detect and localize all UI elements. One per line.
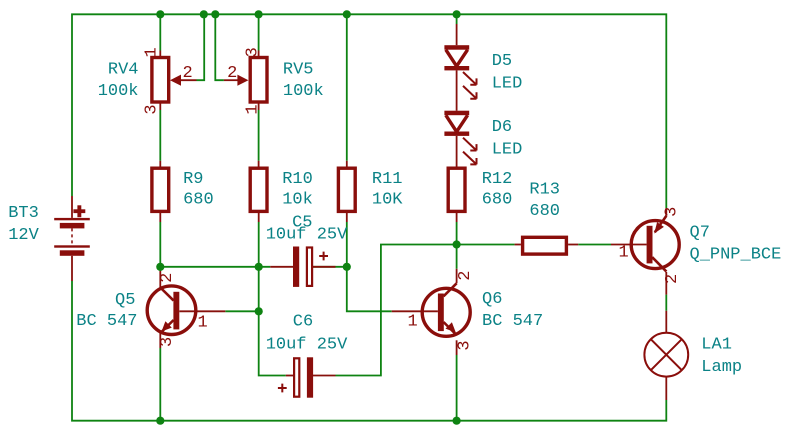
svg-text:R10: R10: [282, 170, 313, 189]
svg-text:BT3: BT3: [8, 204, 39, 223]
svg-text:BC 547: BC 547: [482, 312, 543, 331]
svg-text:LA1: LA1: [701, 336, 732, 355]
svg-text:1: 1: [198, 313, 208, 332]
svg-text:Q_PNP_BCE: Q_PNP_BCE: [690, 246, 782, 265]
svg-text:3: 3: [143, 104, 162, 114]
svg-text:D6: D6: [492, 118, 512, 137]
svg-text:RV5: RV5: [283, 61, 314, 80]
svg-text:2: 2: [456, 271, 475, 281]
svg-text:RV4: RV4: [108, 61, 139, 80]
svg-text:2: 2: [227, 64, 237, 83]
svg-text:LED: LED: [492, 141, 523, 160]
svg-text:R13: R13: [529, 181, 560, 200]
svg-text:1: 1: [243, 104, 262, 114]
svg-text:100k: 100k: [283, 82, 324, 101]
svg-text:10k: 10k: [282, 191, 313, 210]
svg-text:Q5: Q5: [115, 291, 135, 310]
svg-text:10uf 25V: 10uf 25V: [266, 225, 348, 244]
svg-text:680: 680: [482, 191, 513, 210]
svg-text:1: 1: [143, 47, 162, 57]
svg-text:Lamp: Lamp: [701, 358, 742, 377]
svg-text:10uf 25V: 10uf 25V: [266, 335, 348, 354]
svg-text:R11: R11: [372, 170, 403, 189]
svg-text:10K: 10K: [372, 191, 403, 210]
svg-text:3: 3: [243, 47, 262, 57]
svg-text:LED: LED: [492, 74, 523, 93]
svg-text:D5: D5: [492, 52, 512, 71]
svg-text:2: 2: [158, 273, 177, 283]
svg-text:2: 2: [183, 64, 193, 83]
svg-text:R12: R12: [482, 170, 513, 189]
svg-text:3: 3: [158, 337, 177, 347]
svg-text:12V: 12V: [8, 226, 39, 245]
svg-text:100k: 100k: [98, 82, 139, 101]
svg-text:C6: C6: [293, 313, 313, 332]
svg-text:R9: R9: [183, 170, 203, 189]
svg-text:3: 3: [663, 207, 682, 217]
svg-text:2: 2: [663, 274, 682, 284]
svg-text:BC 547: BC 547: [76, 312, 137, 331]
svg-text:680: 680: [529, 202, 560, 221]
svg-text:3: 3: [456, 340, 475, 350]
svg-text:1: 1: [408, 312, 418, 331]
svg-text:1: 1: [619, 243, 629, 262]
svg-text:680: 680: [183, 191, 214, 210]
svg-text:Q6: Q6: [482, 290, 502, 309]
svg-text:Q7: Q7: [690, 224, 710, 243]
